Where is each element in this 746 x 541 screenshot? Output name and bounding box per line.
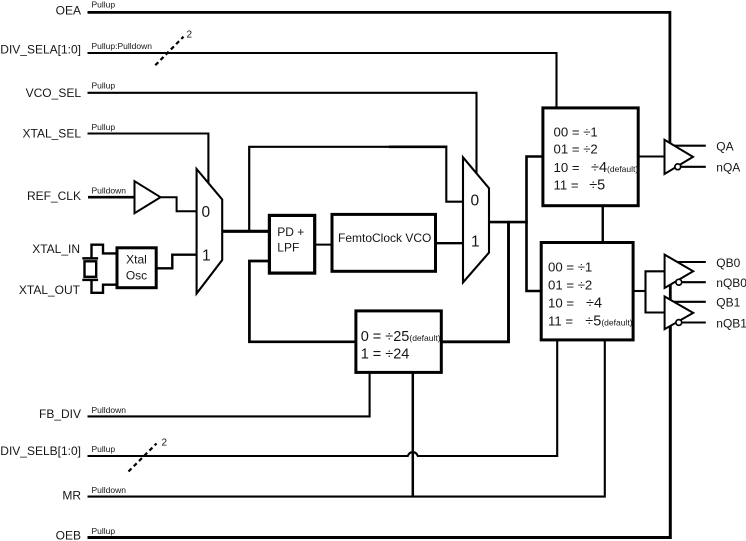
wire XTAL_OUT step into Xtal Osc	[92, 281, 118, 293]
svg-text:00 = ÷1: 00 = ÷1	[554, 125, 598, 140]
wire OEB enable segment between QB0 and QB1 buffers	[669, 282, 672, 302]
divider A block	[543, 108, 638, 206]
svg-text:nQB1: nQB1	[716, 316, 746, 330]
svg-text:OEA: OEA	[56, 4, 81, 18]
svg-text:2: 2	[162, 438, 168, 449]
svg-text:FemtoClock VCO: FemtoClock VCO	[338, 231, 431, 245]
svg-text:01 = ÷2: 01 = ÷2	[554, 142, 598, 157]
wire mux U2 output down to FB divider input	[441, 221, 509, 342]
wire nQB0 output	[682, 281, 706, 283]
Xtal Osc block	[117, 248, 156, 288]
svg-text:FB_DIV: FB_DIV	[39, 407, 81, 421]
svg-text:REF_CLK: REF_CLK	[27, 189, 81, 203]
wire XTAL_SEL net: horizontal from pin, down onto mux U1 top	[88, 134, 209, 188]
wire mux U1 output to PD+LPF (node PD_IN)	[221, 230, 270, 233]
output buffer QB0/nQB0	[665, 255, 694, 288]
svg-text:1 = ÷24: 1 = ÷24	[361, 347, 410, 363]
mux U2 (VCO_SEL select)	[463, 157, 489, 282]
svg-text:Pullup: Pullup	[92, 526, 116, 536]
wire divider A to divider B connector	[602, 204, 604, 246]
wire OEA net: horizontal from pin, down to QA buffer enable	[88, 12, 670, 146]
svg-text:MR: MR	[62, 489, 81, 503]
crystal Y1 bottom plate	[82, 279, 98, 282]
svg-text:XTAL_OUT: XTAL_OUT	[19, 283, 81, 297]
svg-text:Xtal: Xtal	[126, 253, 147, 267]
svg-text:0: 0	[202, 204, 211, 221]
wire VCO output to mux U2 input 1	[436, 242, 465, 244]
svg-text:01 = ÷2: 01 = ÷2	[548, 277, 592, 292]
feedback divider block	[356, 311, 441, 373]
wire XTAL_IN step into Xtal Osc	[92, 245, 118, 258]
wire mux U2 output up/down to divider A and divider B inputs	[527, 157, 543, 292]
svg-text:Osc: Osc	[126, 269, 147, 283]
svg-text:Pulldown: Pulldown	[92, 186, 127, 196]
divider B block	[541, 243, 633, 340]
wire divider B output to QB bracket	[633, 290, 646, 292]
svg-text:Pullup:Pulldown: Pullup:Pulldown	[92, 41, 153, 51]
wire feedback from FB divider to PD+LPF lower input	[249, 261, 357, 342]
wire PD+LPF to FemtoClock VCO	[314, 244, 333, 246]
inversion bubble nQB0	[676, 279, 682, 285]
wire QA output	[671, 145, 706, 147]
wire MR net: horizontal, up into divider B bottom	[88, 336, 605, 497]
wire divider A output to QA buffer	[638, 155, 666, 157]
wire DIV_SELA net: horizontal from pin, down into divider A top	[88, 53, 557, 110]
wire bypass down into mux U2 input 0	[446, 146, 464, 202]
svg-text:XTAL_IN: XTAL_IN	[32, 242, 80, 256]
svg-text:1: 1	[202, 247, 211, 264]
svg-text:00 = ÷1: 00 = ÷1	[548, 260, 592, 275]
wire QB bracket to QB0 and QB1 buffer inputs	[646, 271, 667, 312]
wire mux U2 output	[488, 221, 528, 224]
FemtoClock VCO block U3	[332, 214, 436, 271]
wire buffer output to mux U1 input 0	[157, 197, 197, 211]
wire FB divider bottom stub down to MR line	[412, 371, 415, 497]
mux U1 (XTAL_SEL select)	[197, 169, 223, 294]
svg-text:OEB: OEB	[56, 529, 81, 541]
svg-text:QB0: QB0	[716, 256, 740, 270]
svg-text:QA: QA	[716, 139, 733, 153]
wire VCO_SEL net: horizontal from pin, down onto mux U2 top	[88, 93, 477, 178]
svg-text:DIV_SELA[1:0]: DIV_SELA[1:0]	[0, 42, 81, 56]
wire REF_CLK: pin to input buffer	[88, 196, 136, 199]
wire nQB1 output	[682, 321, 706, 323]
PD + LPF block	[269, 215, 314, 273]
svg-text:PD +: PD +	[277, 225, 304, 239]
svg-text:VCO_SEL: VCO_SEL	[26, 86, 82, 100]
wire QB0 output	[672, 261, 706, 263]
bus slash DIV_SELA	[155, 37, 183, 65]
inversion bubble nQA	[675, 164, 681, 170]
wire bypass thick segment toward mux U2	[389, 145, 447, 148]
svg-text:QB1: QB1	[716, 296, 740, 310]
wire bypass tap up from PD_IN node	[249, 147, 390, 233]
wire nQA output	[681, 166, 706, 168]
svg-text:1: 1	[471, 233, 480, 250]
svg-text:DIV_SELB[1:0]: DIV_SELB[1:0]	[0, 444, 81, 458]
svg-text:2: 2	[187, 29, 193, 40]
inversion bubble nQB1	[676, 320, 682, 326]
svg-text:Pulldown: Pulldown	[92, 405, 127, 415]
crystal Y1 body	[85, 261, 97, 277]
svg-text:Pullup: Pullup	[92, 122, 116, 132]
svg-text:Pulldown: Pulldown	[92, 485, 127, 495]
input buffer for REF_CLK	[135, 181, 161, 213]
bus slash DIV_SELB	[129, 444, 157, 472]
wire Xtal Osc output to mux U1 input 1	[156, 255, 197, 269]
svg-text:Pullup: Pullup	[92, 80, 116, 90]
wire FB_DIV pin up to FB divider bottom	[88, 371, 370, 416]
output buffer QB1/nQB1	[665, 297, 694, 330]
svg-text:LPF: LPF	[277, 241, 299, 255]
svg-text:nQA: nQA	[716, 160, 740, 174]
svg-text:0: 0	[471, 192, 480, 209]
svg-text:Pullup: Pullup	[92, 444, 116, 454]
wire DIV_SELB net with hop over FB stub, up into divider B bottom	[88, 336, 558, 456]
crystal Y1 top plate	[82, 257, 98, 260]
wire OEB net: horizontal from pin, up to QB buffers enable	[88, 322, 671, 538]
svg-text:nQB0: nQB0	[716, 276, 746, 290]
wire QB1 output	[672, 301, 706, 303]
svg-text:Pullup: Pullup	[92, 0, 116, 10]
output buffer QA/nQA	[665, 140, 694, 174]
svg-text:XTAL_SEL: XTAL_SEL	[23, 127, 82, 141]
